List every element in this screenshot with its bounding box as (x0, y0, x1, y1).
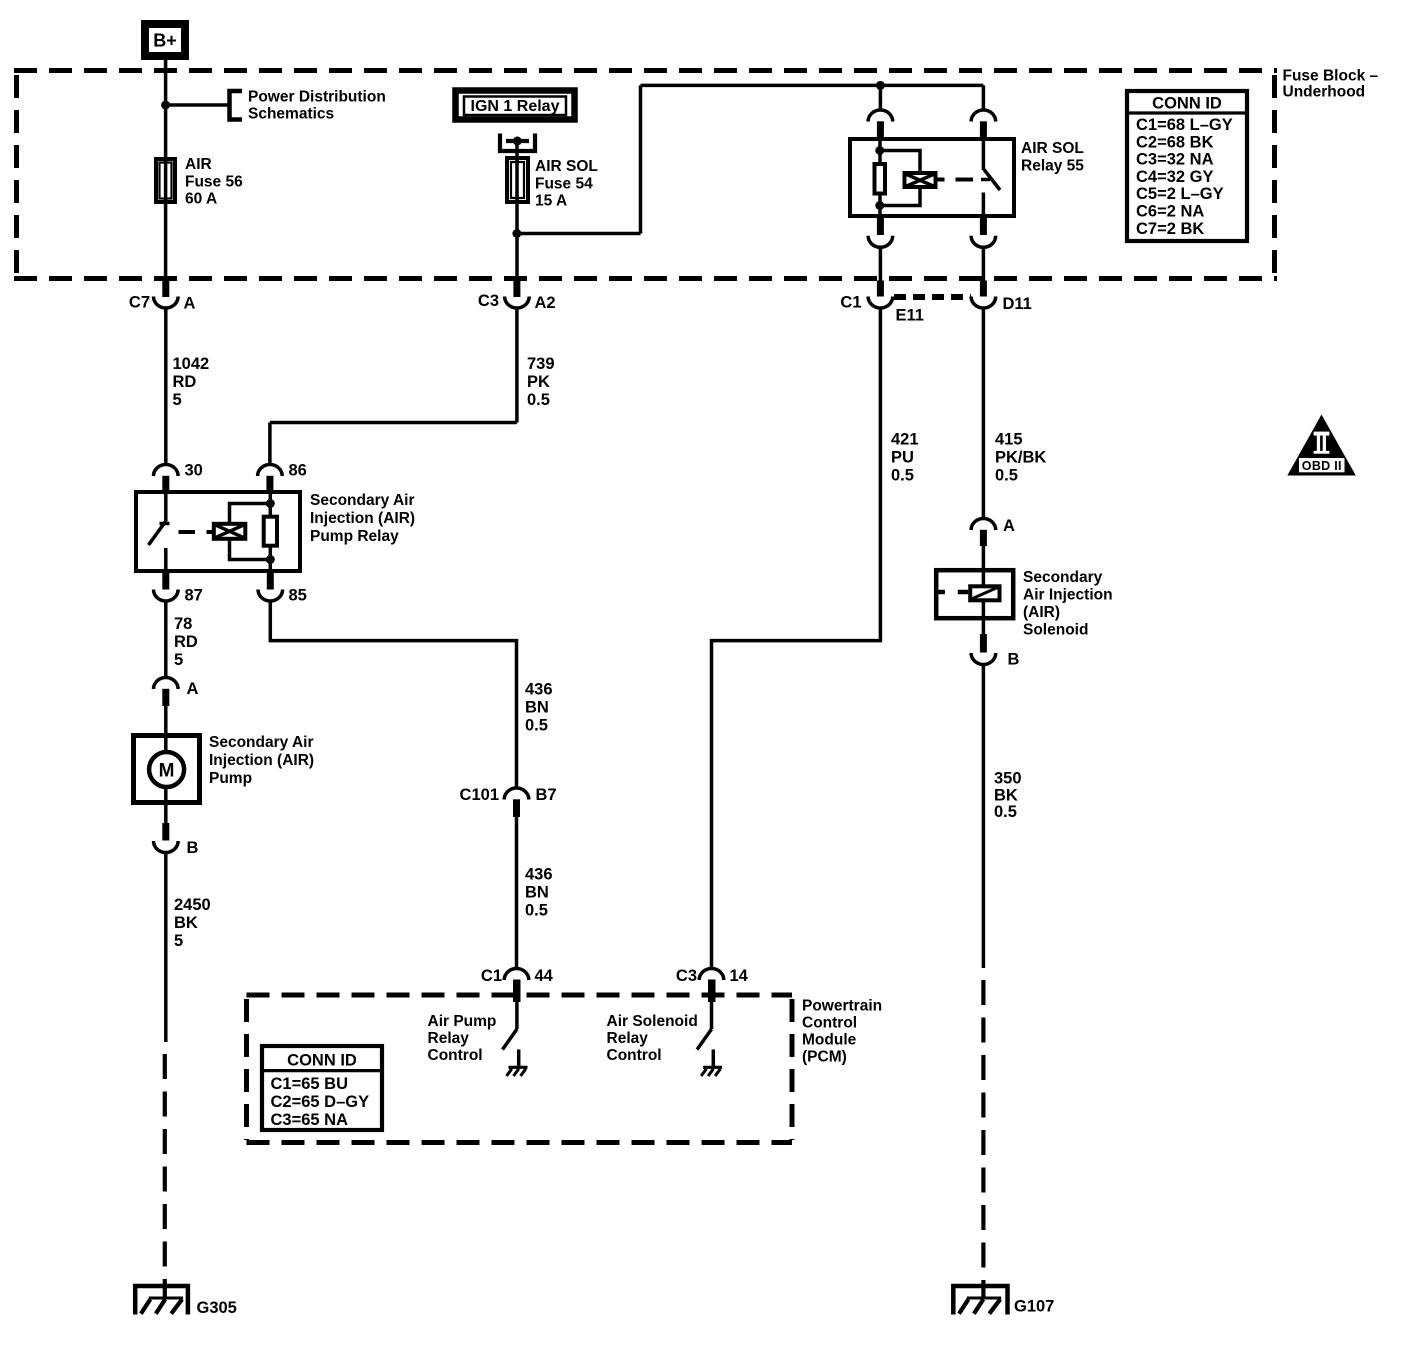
svg-text:C4=32 GY: C4=32 GY (1136, 168, 1214, 186)
svg-text:1042: 1042 (173, 355, 210, 373)
wire label 78 RD 5 (174, 615, 198, 669)
svg-text:Solenoid: Solenoid (1023, 622, 1088, 639)
connector D11 stub (980, 281, 987, 297)
svg-text:C3=65 NA: C3=65 NA (271, 1111, 349, 1129)
svg-text:15 A: 15 A (535, 193, 567, 210)
svg-text:436: 436 (525, 866, 553, 884)
wire 415 PK/BK 0.5 from D11 (982, 307, 986, 519)
wire down to relay 55 switch terminal (982, 85, 986, 111)
relay 55 coil terminal stub bottom (877, 216, 884, 235)
wire to power distribution reference (166, 103, 229, 107)
solenoid wire into valve element (982, 570, 986, 586)
CONN ID table PCM (262, 1046, 382, 1130)
svg-text:C101: C101 (460, 786, 499, 804)
solenoid left port stub (937, 590, 945, 595)
relay 55 coil terminal arc bottom (868, 236, 893, 248)
PCM driver 1 input wire (515, 1002, 519, 1029)
svg-text:CONN ID: CONN ID (1152, 95, 1222, 113)
node pump relay coil bottom (266, 555, 275, 564)
AIR SOL Fuse 54 15 A value label (535, 158, 598, 210)
svg-text:AIR: AIR (185, 156, 212, 173)
svg-text:C2=68 BK: C2=68 BK (1136, 133, 1214, 151)
connector B arc below solenoid (971, 653, 996, 665)
svg-text:G305: G305 (197, 1299, 237, 1317)
wire junction to riser (517, 232, 641, 236)
CONN ID table fuse block (1127, 91, 1247, 241)
PCM driver 1 ground stem (517, 1050, 521, 1068)
svg-text:IGN 1 Relay: IGN 1 Relay (471, 98, 560, 115)
svg-text:2450: 2450 (174, 896, 211, 914)
connector C1 pin 44 stub (513, 980, 521, 1003)
PCM driver 2 input wire (710, 1002, 714, 1029)
svg-text:86: 86 (289, 462, 307, 480)
relay terminal 86 stub (266, 476, 273, 492)
svg-text:PK/BK: PK/BK (995, 449, 1046, 467)
Fuse Block - Underhood label (1283, 68, 1379, 101)
svg-text:0.5: 0.5 (994, 803, 1017, 821)
relay terminal 86 arc (258, 465, 283, 477)
svg-text:C1=65 BU: C1=65 BU (271, 1075, 349, 1093)
connector B arc below pump (154, 841, 179, 853)
svg-text:5: 5 (174, 932, 183, 950)
IGN 1 Relay reference box (456, 91, 575, 120)
node junction at power distribution tap (161, 101, 170, 110)
relay 55 coil feed wire (878, 139, 882, 164)
svg-text:C3: C3 (676, 967, 697, 985)
svg-text:C3=32 NA: C3=32 NA (1136, 151, 1214, 169)
wire 78 RD 5 down from terminal 87 (164, 600, 168, 678)
wire 739 PK 0.5 down (515, 307, 519, 423)
svg-text:PU: PU (891, 449, 914, 467)
svg-text:Control: Control (607, 1047, 662, 1064)
relay output terminal bar (506, 139, 529, 143)
AIR SOL Relay 55 label (1021, 140, 1084, 175)
relay 55 switch input wire (982, 139, 986, 170)
Secondary Air Injection (AIR) Pump label (209, 734, 314, 787)
wire 2450 BK 5 (164, 852, 168, 1043)
relay 55 coil terminal stub top (877, 121, 884, 138)
svg-text:5: 5 (174, 651, 183, 669)
svg-text:0.5: 0.5 (525, 902, 548, 920)
wire 2450 BK 5 dashed run to G305 (163, 1054, 167, 1298)
connector C3 pin A2 arc (505, 297, 530, 309)
svg-text:A2: A2 (535, 294, 556, 312)
B+ battery feed symbol (145, 24, 185, 56)
PCM driver 1 switch blade (503, 1029, 518, 1050)
wire drop to terminal 86 (268, 423, 272, 466)
relay 55 solenoid core crossed box (905, 173, 936, 187)
svg-text:Air Injection: Air Injection (1023, 587, 1113, 604)
wire label 415 PK/BK 0.5 (995, 431, 1046, 485)
svg-text:A: A (1003, 517, 1015, 535)
connector A stub above solenoid (980, 530, 987, 546)
wire 350 BK 0.5 (982, 664, 986, 969)
svg-text:C2=65 D–GY: C2=65 D–GY (271, 1093, 370, 1111)
svg-text:C7=2 BK: C7=2 BK (1136, 220, 1204, 238)
relay 55 coil bottom wire (878, 194, 882, 219)
pump relay switch blade (149, 522, 166, 546)
ground G107 bracket (953, 1286, 1007, 1315)
svg-text:D11: D11 (1003, 295, 1032, 313)
svg-text:0.5: 0.5 (891, 467, 914, 485)
connector E11 dotted bridge (894, 294, 971, 300)
ground G107 hatches (959, 1299, 1000, 1313)
connector C7 pin A arc (154, 297, 179, 309)
wire label 436 BN 0.5 upper (525, 681, 553, 735)
svg-text:Fuse Block –: Fuse Block – (1283, 68, 1379, 85)
wire B+ down through AIR Fuse 56 to fuse block border (164, 58, 168, 283)
motor M circle (149, 752, 184, 787)
pump relay coil feed wire (269, 492, 273, 517)
svg-text:C1: C1 (840, 294, 861, 312)
relay 55 coil to solenoid-core bracket bottom (880, 188, 920, 206)
svg-text:Fuse 54: Fuse 54 (535, 176, 593, 193)
wire label 2450 BK 5 (174, 896, 211, 950)
relay 55 switch fixed contact wire (982, 193, 986, 217)
svg-text:C1: C1 (481, 967, 502, 985)
svg-text:Control: Control (802, 1015, 857, 1032)
node top rail branch to relay coil (876, 81, 885, 90)
wire 350 BK 0.5 dashed run to G107 (981, 980, 985, 1298)
connector C3 pin A2 labels (478, 292, 556, 312)
svg-text:Relay 55: Relay 55 (1021, 158, 1084, 175)
PCM driver 2 ground stem (712, 1050, 716, 1068)
svg-text:BK: BK (174, 914, 198, 932)
svg-text:C1=68 L–GY: C1=68 L–GY (1136, 116, 1233, 134)
svg-text:RD: RD (174, 633, 198, 651)
pump relay core to coil bracket top (230, 504, 271, 524)
svg-text:Power Distribution: Power Distribution (248, 89, 386, 106)
svg-text:G107: G107 (1014, 1298, 1054, 1316)
fuse AIR SOL Fuse 54 15A (507, 158, 528, 202)
svg-text:0.5: 0.5 (525, 717, 548, 735)
wire 739 horizontal run to terminal 86 (270, 421, 517, 425)
svg-text:BK: BK (994, 787, 1018, 805)
svg-text:Schematics: Schematics (248, 106, 334, 123)
motor Secondary Air Injection (AIR) Pump body (134, 736, 200, 803)
svg-text:Air Solenoid: Air Solenoid (607, 1013, 698, 1030)
connector D11 arc (971, 297, 996, 309)
svg-text:CONN ID: CONN ID (287, 1052, 357, 1070)
node relay 55 coil top (875, 146, 884, 155)
relay 55 coil terminal arc top (868, 110, 893, 122)
solenoid left link segment (958, 590, 968, 595)
connector C101 pin B7 arc (504, 788, 529, 799)
svg-text:87: 87 (185, 587, 203, 605)
Powertrain Control Module (PCM) label (802, 998, 882, 1066)
pump relay terminal 85 stub (267, 571, 274, 590)
wire label 436 BN 0.5 lower (525, 866, 553, 920)
relay Secondary Air Injection (AIR) Pump Relay body (136, 492, 300, 571)
svg-text:AIR SOL: AIR SOL (1021, 140, 1084, 157)
wire through fuse 54 down to fuse block border (515, 158, 519, 283)
svg-text:78: 78 (174, 615, 192, 633)
svg-text:Injection (AIR): Injection (AIR) (310, 510, 415, 527)
relay socket cup below IGN 1 Relay (500, 134, 535, 152)
pump relay solenoid core crossed box (214, 524, 246, 539)
connector B stub below pump (162, 823, 169, 841)
Air Solenoid Relay Control label (607, 1013, 698, 1064)
svg-text:B7: B7 (536, 786, 557, 804)
relay 55 switch terminal stub bottom (980, 216, 987, 235)
connector C3 pin 14 labels (676, 967, 749, 985)
connector B stub below solenoid (980, 634, 987, 653)
svg-text:Secondary Air: Secondary Air (209, 734, 314, 751)
svg-text:Underhood: Underhood (1283, 84, 1366, 101)
wire 421 PU 0.5 from E11 to PCM (712, 307, 881, 969)
svg-text:(PCM): (PCM) (802, 1049, 847, 1066)
pump relay switch fixed contact wire (164, 548, 168, 571)
off-page reference bracket Power Distribution (230, 91, 243, 120)
PCM driver 1 ground bar (509, 1066, 528, 1069)
solenoid valve diagonal (973, 588, 998, 599)
wire into solenoid (982, 546, 986, 570)
connector C101 pin B7 labels (460, 786, 557, 804)
pump relay actuator dashed link (179, 530, 213, 534)
svg-text:RD: RD (173, 373, 197, 391)
wire relay 55 pin to C1 connector (879, 246, 883, 283)
connector C1 pin 44 arc (504, 969, 529, 980)
svg-text:E11: E11 (896, 307, 924, 325)
pump relay switch input wire (164, 492, 168, 522)
svg-text:Injection (AIR): Injection (AIR) (209, 752, 314, 769)
svg-text:BN: BN (525, 884, 549, 902)
svg-text:B: B (1008, 651, 1020, 669)
svg-text:PK: PK (527, 373, 550, 391)
wire out of pump (164, 786, 168, 826)
wire relay 55 pin to D11 connector (982, 246, 986, 283)
svg-text:5: 5 (173, 391, 182, 409)
relay 55 actuator tick at blade (981, 178, 990, 182)
pump relay actuator tick at blade (160, 522, 170, 526)
wire 436 BN from terminal 85 (270, 600, 516, 788)
svg-text:Control: Control (428, 1047, 483, 1064)
connector C1 E11 D11 labels (840, 294, 1031, 325)
ground G305 bar (149, 1297, 183, 1300)
fuse AIR Fuse 56 60A (156, 159, 175, 202)
Fuse Block - Underhood dashed boundary box (14, 71, 1277, 279)
svg-text:739: 739 (527, 355, 555, 373)
svg-text:0.5: 0.5 (527, 391, 550, 409)
pump relay coil bottom wire (269, 546, 273, 571)
connector C3 pin 14 arc (699, 969, 724, 980)
solenoid wire out of valve element (982, 601, 986, 635)
svg-text:AIR SOL: AIR SOL (535, 158, 598, 175)
pump relay coil element (264, 517, 277, 546)
relay 55 coil to solenoid-core bracket top (880, 151, 920, 173)
pump relay terminal 87 stub (162, 571, 169, 590)
svg-text:85: 85 (289, 587, 307, 605)
relay 55 actuator dashed link (956, 178, 974, 182)
wire label 1042 RD 5 (173, 355, 210, 409)
svg-text:C6=2 NA: C6=2 NA (1136, 203, 1204, 221)
wire label 350 BK 0.5 (994, 770, 1022, 822)
svg-text:Secondary Air: Secondary Air (310, 492, 415, 509)
AIR Fuse 56 60 A value label (185, 156, 243, 208)
wire into pump (164, 706, 168, 753)
wire down to relay 55 coil terminal (879, 85, 883, 111)
connector A arc above pump (154, 678, 179, 690)
connector C3 pin 14 stub (708, 980, 716, 1003)
svg-text:350: 350 (994, 770, 1022, 788)
Secondary Air Injection (AIR) Pump Relay label (310, 492, 415, 545)
connector C1 stub (877, 281, 884, 297)
wire label 421 PU 0.5 (891, 431, 919, 485)
solenoid Secondary Air Injection (AIR) Solenoid body (936, 570, 1013, 618)
OBD II emission symbol (1287, 415, 1356, 476)
svg-text:60 A: 60 A (185, 191, 217, 208)
svg-text:Air Pump: Air Pump (428, 1013, 497, 1030)
relay 55 coil element (875, 164, 886, 194)
node relay output (513, 137, 522, 146)
wire 436 BN 0.5 to PCM (515, 817, 519, 969)
connector C101 pin B7 stub (513, 799, 520, 817)
PCM driver 2 ground hatches (701, 1069, 720, 1076)
svg-text:415: 415 (995, 431, 1023, 449)
svg-text:436: 436 (525, 681, 553, 699)
connector C7 pin A labels (129, 294, 196, 313)
wire from relay output into fuse 54 (515, 141, 519, 160)
Powertrain Control Module (PCM) dashed boundary box (247, 995, 793, 1143)
wire 1042 RD 5 (164, 307, 168, 465)
wire label 739 PK 0.5 (527, 355, 555, 409)
relay terminal 30 stub (162, 476, 169, 492)
relay 55 switch terminal stub top (980, 121, 987, 138)
svg-text:M: M (159, 761, 175, 782)
pump relay core to coil bracket bottom (230, 540, 271, 560)
svg-text:Pump Relay: Pump Relay (310, 528, 399, 545)
svg-text:0.5: 0.5 (995, 467, 1018, 485)
svg-text:Fuse 56: Fuse 56 (185, 174, 243, 191)
relay 55 switch terminal arc top (971, 110, 996, 122)
solenoid valve element box (970, 586, 999, 600)
svg-text:Pump: Pump (209, 770, 252, 787)
connector A arc above solenoid (971, 519, 996, 531)
relay terminal 30 arc (154, 465, 179, 477)
svg-text:(AIR): (AIR) (1023, 604, 1060, 621)
svg-text:30: 30 (185, 462, 203, 480)
pump relay terminal 85 arc (258, 590, 283, 602)
ground G305 bracket (135, 1286, 188, 1315)
pump relay terminal 87 arc (154, 590, 179, 602)
connector C7 pin A stub (162, 281, 169, 298)
svg-text:C5=2 L–GY: C5=2 L–GY (1136, 185, 1224, 203)
svg-text:B+: B+ (153, 31, 177, 51)
node relay 55 coil bottom (875, 201, 884, 210)
connector C3 pin A2 stub (513, 281, 520, 298)
connector C1 arc (868, 297, 893, 309)
svg-text:A: A (184, 295, 196, 313)
svg-text:B: B (187, 839, 199, 857)
svg-text:44: 44 (535, 967, 554, 985)
ground G107 bar (967, 1297, 1001, 1300)
svg-text:C3: C3 (478, 292, 499, 310)
ground G305 hatches (141, 1299, 182, 1313)
PCM driver 2 ground bar (703, 1066, 722, 1069)
svg-text:Module: Module (802, 1032, 857, 1049)
svg-text:421: 421 (891, 431, 919, 449)
relay 55 switch terminal arc bottom (971, 236, 996, 248)
relay 55 switch blade (984, 170, 1000, 191)
PCM driver 1 ground hatches (507, 1069, 526, 1076)
svg-text:Secondary: Secondary (1023, 569, 1103, 586)
Power Distribution Schematics label (248, 89, 386, 123)
wire top rail to AIR SOL Relay 55 (641, 84, 984, 88)
svg-text:Relay: Relay (607, 1030, 649, 1047)
connector C1 pin 44 labels (481, 967, 554, 985)
svg-text:OBD II: OBD II (1302, 459, 1342, 473)
Secondary Air Injection (AIR) Solenoid label (1023, 569, 1113, 639)
relay 55 actuator stub from core (938, 178, 945, 182)
connector A stub above pump (162, 689, 169, 706)
relay U55 AIR SOL Relay 55 body (850, 139, 1014, 216)
svg-text:14: 14 (730, 967, 749, 985)
node junction below fuse 54 (512, 229, 521, 238)
svg-text:C7: C7 (129, 294, 150, 312)
Air Pump Relay Control label (428, 1013, 497, 1064)
node pump relay coil top (266, 499, 275, 508)
PCM driver 2 switch blade (697, 1029, 712, 1050)
svg-text:A: A (187, 680, 199, 698)
svg-text:BN: BN (525, 699, 549, 717)
svg-text:Powertrain: Powertrain (802, 998, 882, 1015)
wire riser up to top rail (639, 85, 643, 233)
svg-text:Relay: Relay (428, 1030, 470, 1047)
